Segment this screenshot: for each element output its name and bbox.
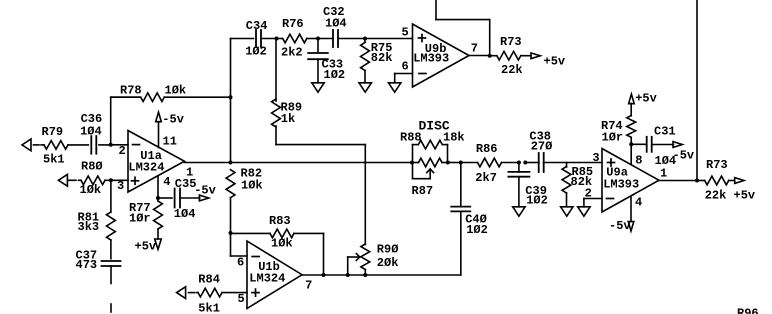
svg-text:1Øk: 1Øk	[241, 178, 263, 192]
resistor R89	[272, 39, 366, 145]
ground R85	[561, 207, 573, 216]
svg-text:82k: 82k	[371, 51, 393, 65]
R87 wiper	[413, 163, 434, 179]
svg-text:1Øk: 1Øk	[165, 83, 187, 97]
U1b pin5 label	[238, 292, 245, 306]
node junction C34/R76/R89	[275, 37, 279, 41]
svg-text:6: 6	[237, 255, 244, 269]
node R83 return	[322, 273, 326, 277]
resistor R90 pot	[361, 145, 399, 275]
wire C34 to node	[261, 38, 277, 40]
svg-text:+5v: +5v	[635, 92, 657, 106]
svg-text:1Øk: 1Øk	[271, 237, 293, 251]
arrow +5v R74	[629, 92, 657, 106]
svg-text:5: 5	[402, 25, 409, 39]
svg-text:R84: R84	[198, 273, 220, 287]
node junction R76/C32/C33	[316, 37, 320, 41]
svg-text:5: 5	[238, 292, 245, 306]
svg-text:8: 8	[635, 153, 642, 167]
arrow -5v pin4	[609, 219, 634, 233]
resistor R73 top	[490, 35, 531, 77]
svg-text:C34: C34	[246, 19, 268, 33]
resistor R88	[400, 131, 465, 163]
svg-text:LM324: LM324	[249, 272, 285, 286]
svg-text:1: 1	[660, 167, 667, 181]
svg-text:LM393: LM393	[413, 51, 449, 65]
svg-text:-5v: -5v	[162, 112, 184, 126]
svg-text:2k7: 2k7	[475, 171, 497, 185]
resistor R79	[34, 125, 89, 166]
resistor R87 pot	[412, 158, 448, 198]
svg-text:R73: R73	[500, 35, 522, 49]
input arrow R79	[22, 139, 31, 151]
resistor R77	[129, 198, 162, 239]
capacitor C33	[308, 39, 345, 83]
wire top-rail vertical	[230, 39, 232, 163]
wire top-rail horizontal	[231, 38, 254, 40]
svg-text:1Ø4: 1Ø4	[325, 17, 347, 31]
ground U9a pin2	[578, 207, 590, 216]
svg-text:5k1: 5k1	[198, 301, 220, 314]
svg-text:+5v: +5v	[135, 239, 157, 253]
svg-text:22k: 22k	[501, 63, 523, 77]
svg-text:3k3: 3k3	[78, 220, 100, 234]
node U1a out / R82	[229, 161, 233, 165]
svg-text:27Ø: 27Ø	[531, 140, 553, 154]
input arrow R80	[58, 174, 67, 186]
resistor R76	[277, 17, 319, 60]
wire right vertical to top	[696, 0, 698, 181]
svg-text:1Ø4: 1Ø4	[174, 207, 196, 221]
svg-text:R96: R96	[737, 307, 759, 314]
node R88 left	[410, 161, 414, 165]
resistor R73 bottom	[697, 158, 755, 203]
capacitor C39	[508, 163, 547, 208]
wire to U9a pin3	[567, 151, 602, 165]
node C40 top	[459, 161, 463, 165]
node R78/top-rail	[229, 95, 233, 99]
wire R88 to C40 node	[448, 162, 461, 164]
capacitor C34	[245, 19, 267, 59]
resistor R81	[78, 180, 116, 258]
capacitor C40	[451, 163, 488, 276]
svg-text:R88: R88	[400, 131, 422, 145]
svg-text:1Ør: 1Ør	[602, 130, 624, 144]
resistor R75	[361, 39, 393, 83]
resistor R78	[111, 83, 231, 101]
resistor R82	[226, 166, 263, 233]
svg-text:R86: R86	[476, 142, 498, 156]
arrow -5v C35	[194, 183, 216, 201]
svg-text:1Ø2: 1Ø2	[526, 194, 548, 208]
capacitor C31	[631, 125, 676, 169]
svg-text:R79: R79	[42, 125, 64, 139]
op-amp U9b LM393	[413, 24, 470, 87]
op-amp U1b LM324	[247, 241, 302, 309]
svg-text:3: 3	[592, 151, 599, 165]
wire below C37	[110, 266, 112, 284]
label corner R96	[737, 307, 759, 314]
svg-text:4: 4	[635, 196, 642, 210]
wire to U1b pin6	[231, 233, 248, 269]
capacitor C35	[158, 177, 200, 221]
arrow +5v R73 bottom	[735, 178, 744, 184]
node U1a pin3	[109, 178, 113, 182]
wire node to U9b pin 5	[365, 25, 413, 39]
node R90 wiper	[346, 273, 350, 277]
resistor R83	[231, 214, 324, 275]
wire R78 left vertical	[111, 97, 140, 145]
wire stub bottom edge	[110, 304, 112, 312]
svg-text:4: 4	[163, 175, 170, 189]
node R90 bottom	[363, 273, 367, 277]
node U9b output	[488, 54, 492, 58]
svg-text:C31: C31	[654, 125, 676, 139]
svg-text:1Ø2: 1Ø2	[466, 223, 488, 237]
svg-text:1Ø2: 1Ø2	[245, 45, 267, 59]
wire pin2 to U1a	[111, 144, 128, 158]
svg-text:22k +5v: 22k +5v	[705, 189, 755, 203]
wire U9b output pin 7	[469, 41, 490, 55]
arrow -5v C31	[673, 142, 695, 163]
node R73 junction	[695, 179, 699, 183]
capacitor C32	[318, 5, 365, 47]
wire U9a pin2	[584, 187, 602, 207]
svg-text:2: 2	[119, 144, 126, 158]
svg-text:1Øk: 1Øk	[80, 183, 102, 197]
svg-text:1Ø4: 1Ø4	[80, 124, 102, 138]
arrow +5v R73 top	[531, 53, 565, 69]
capacitor C38	[525, 129, 567, 172]
svg-text:1: 1	[186, 166, 193, 180]
R90 wiper arrow	[348, 254, 360, 275]
svg-text:R73: R73	[706, 158, 728, 172]
node R74/C31	[629, 142, 633, 146]
wire pin3 to U1a	[111, 179, 128, 193]
wire U1a output	[185, 163, 231, 180]
svg-text:7: 7	[305, 278, 312, 292]
arrow -5v pin11	[156, 112, 184, 126]
label DISC	[419, 118, 450, 133]
svg-text:7: 7	[471, 41, 478, 55]
svg-text:-5v: -5v	[194, 183, 216, 197]
svg-text:11: 11	[163, 135, 177, 149]
svg-text:18k: 18k	[443, 131, 465, 145]
svg-text:2Øk: 2Øk	[377, 256, 399, 270]
svg-text:R83: R83	[269, 214, 291, 228]
wire U1a pin4	[158, 175, 170, 198]
node R82/R83/pin6	[229, 231, 233, 235]
resistor R84	[189, 273, 248, 314]
ground C33	[312, 83, 324, 92]
svg-text:1Ør: 1Ør	[129, 212, 151, 226]
ground R75	[359, 83, 371, 92]
resistor R85	[562, 163, 593, 207]
wire U1a pin11	[159, 122, 177, 149]
node C39 junction	[517, 161, 527, 165]
capacitor C37	[76, 248, 121, 272]
op-amp U1a LM324	[128, 131, 185, 193]
wire U9a pin8	[631, 144, 642, 167]
svg-text:R9Ø: R9Ø	[377, 243, 399, 257]
svg-text:1k: 1k	[281, 112, 295, 126]
svg-text:R8Ø: R8Ø	[81, 160, 103, 174]
svg-text:5k1: 5k1	[43, 153, 65, 167]
svg-text:LM324: LM324	[128, 161, 164, 175]
ground U9b pin6	[389, 83, 401, 92]
svg-text:473: 473	[76, 258, 98, 272]
op-amp U9a LM393	[602, 149, 659, 213]
node U1a pin2	[109, 143, 113, 147]
wire U9b pin 6	[395, 60, 413, 83]
svg-text:1Ø2: 1Ø2	[324, 68, 346, 82]
svg-text:3: 3	[117, 179, 124, 193]
wire main mid line	[231, 162, 413, 164]
ground C39	[513, 207, 525, 216]
svg-text:-5v: -5v	[609, 219, 631, 233]
capacitor C36	[80, 112, 111, 154]
wire U9a output	[659, 167, 697, 181]
node junction C32/R75	[363, 37, 367, 41]
svg-text:R78: R78	[120, 83, 142, 97]
resistor R74	[601, 103, 636, 144]
svg-text:+5v: +5v	[544, 55, 566, 69]
node R88 right	[446, 161, 450, 165]
svg-text:R76: R76	[282, 17, 304, 31]
wire U1b output	[302, 275, 461, 292]
wire U9a pin4	[631, 196, 642, 222]
resistor R80	[68, 160, 111, 197]
wire U9b feedback to top	[436, 0, 490, 56]
svg-text:2: 2	[585, 187, 592, 201]
svg-text:R87: R87	[412, 184, 434, 198]
svg-text:2k2: 2k2	[281, 46, 303, 60]
arrow +5v R77	[135, 239, 162, 253]
svg-text:-5v: -5v	[673, 149, 695, 163]
resistor R86	[461, 142, 519, 185]
node pin4/R77/C35	[156, 196, 160, 200]
svg-text:6: 6	[402, 60, 409, 74]
input arrow R84	[177, 287, 186, 299]
svg-text:LM393: LM393	[603, 178, 639, 192]
